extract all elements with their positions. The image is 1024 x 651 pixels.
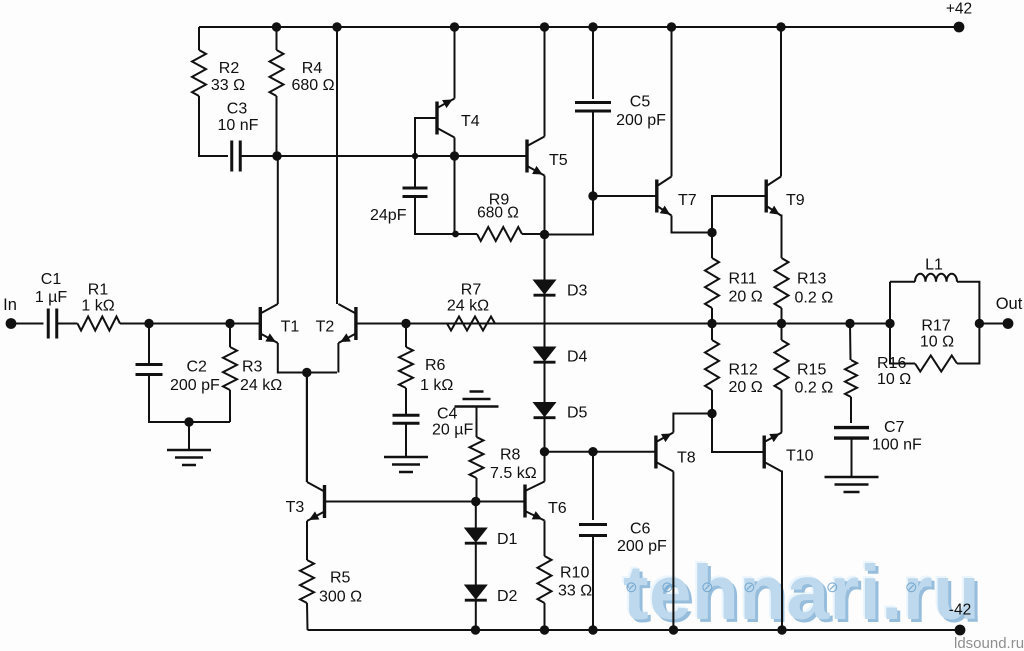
svg-text:200 pF: 200 pF [617,538,667,555]
svg-text:T3: T3 [286,499,305,516]
resistor R2 [192,50,206,96]
svg-text:0.2 Ω: 0.2 Ω [795,290,834,307]
svg-text:R10: R10 [560,565,589,582]
svg-text:Out: Out [996,295,1023,313]
wire T6 collector up to node [544,452,546,482]
svg-text:33 Ω: 33 Ω [558,583,592,600]
svg-text:D5: D5 [567,405,588,422]
transistor T10 [763,436,766,469]
wire R6 to C4 [405,388,407,415]
wire T3 emitter to R5 [306,521,308,560]
wire C6 down [592,452,594,520]
wire R4 bottom to node [276,96,278,156]
wire R2 to C3 [199,96,228,156]
svg-text:0.2 Ω: 0.2 Ω [795,380,834,397]
-42 terminal [955,625,966,636]
svg-text:T1: T1 [281,319,300,336]
node R11-R12 [707,319,716,328]
svg-text:R4: R4 [302,60,323,77]
svg-text:L1: L1 [925,257,943,274]
wire R13 to main line [781,308,783,324]
wire node to T5 base [415,155,527,157]
wire common emitter to T3 collector [306,373,308,483]
wire T8 collector to bottom rail [672,472,674,631]
transistor T5 [525,140,528,173]
resistor R4 [270,50,284,96]
diode D3 [534,280,556,294]
resistor R16 [845,360,857,397]
wire R12 to T8 emitter node [711,390,713,414]
resistor R7 [447,317,495,331]
diode D4 [534,347,556,361]
wire C7 to ground [851,438,853,477]
resistor R9 [477,227,522,241]
diode D1 [465,528,487,542]
wire T9 collector to rail [780,27,782,177]
ldsound.ru caption [954,635,1024,651]
ground under C4 [384,457,428,472]
node C2 branch [144,319,153,328]
wire R15 to T10 emitter [781,390,783,433]
In terminal [6,318,17,329]
capacitor 24pF [403,188,428,197]
wire R6 top [405,324,407,348]
capacitor C6 [579,525,607,536]
svg-text:D1: D1 [497,531,518,548]
transistor T8 [654,436,657,469]
node block right [975,319,984,328]
svg-text:R13: R13 [797,271,826,288]
wire R16 top [849,324,852,361]
transistor T9 [765,180,768,213]
L1 / R17 output block [890,281,915,283]
wire C1 to R1 [57,323,78,325]
svg-text:C4: C4 [437,406,458,423]
wire R8 to base node [476,478,478,502]
svg-text:R11: R11 [729,271,757,288]
svg-text:T2: T2 [316,319,335,336]
transistor T4 [435,102,438,135]
bottom -42 supply rail [308,629,961,631]
capacitor C4 [393,415,420,423]
svg-text:T5: T5 [549,152,568,169]
wire T9 base loop [712,196,766,233]
wire T3 collector up [306,373,308,483]
wire C4 to ground [405,424,407,458]
wire T7 emitter to R11 node [672,216,713,233]
wire to ground [188,422,190,450]
wire R10 to bottom rail [544,603,546,630]
node diode chain bottom [540,447,549,456]
top +42 supply rail [199,26,959,28]
wire base node down to 24pF cap [414,156,416,188]
wire T10 base loop [712,414,764,453]
wire to R9 [456,233,478,235]
svg-text:10 Ω: 10 Ω [877,371,911,388]
wire R9 to T5 emitter node [522,233,545,235]
svg-text:R7: R7 [461,282,482,299]
diode D2 [465,585,487,599]
svg-text:10 nF: 10 nF [218,117,259,134]
node common emitters [302,368,311,377]
svg-text:10 Ω: 10 Ω [920,334,954,351]
resistor R1 [78,317,121,331]
capacitor C5 [575,103,611,112]
wire T2 emitter down [337,343,339,373]
inductor L1 [915,274,957,282]
svg-text:+42: +42 [946,1,972,18]
wire block to Out terminal [979,323,1008,325]
node ground branch [184,417,193,426]
+42 terminal [954,22,965,33]
svg-text:C7: C7 [884,419,905,436]
resistor R15 [775,340,789,390]
capacitor C1 [48,309,57,339]
wire D2 to bottom rail [475,601,477,631]
wire diode chain [544,235,546,452]
svg-text:680 Ω: 680 Ω [477,205,519,222]
svg-text:R2: R2 [219,60,240,77]
wire down to R9 line corner [545,196,594,235]
svg-text:33 Ω: 33 Ω [211,77,245,94]
capacitor C2 [136,365,163,375]
svg-text:T8: T8 [677,450,696,467]
svg-text:300 Ω: 300 Ω [319,589,362,606]
node T4 base branch [412,153,418,159]
svg-text:R15: R15 [797,362,826,379]
svg-text:T7: T7 [678,192,697,209]
node L1 block left [885,319,894,328]
wire T7 base [593,195,657,197]
svg-text:200 pF: 200 pF [616,112,666,129]
capacitor C5 wire from rail [592,27,594,99]
svg-text:T10: T10 [786,448,814,465]
wire node to C6 node [545,451,657,453]
svg-text:R17: R17 [921,318,950,335]
wire C5 to T7 base node [592,111,594,197]
wire C6 to bottom rail [592,536,594,631]
node T7 base [588,191,597,200]
wire T10 emitter up [781,432,783,434]
svg-text:24 kΩ: 24 kΩ [240,377,282,394]
node R16 branch [845,319,854,328]
svg-text:24pF: 24pF [370,207,407,224]
svg-text:C3: C3 [227,101,248,118]
wire R16 to C7 [850,397,852,423]
wire T4 collector to rail [454,27,456,99]
svg-text:100 nF: 100 nF [872,437,922,454]
wire T4 emitter to node [454,138,456,157]
wire T8 emitter up to node [673,414,712,433]
wire T10 collector to bottom rail [781,472,783,631]
transistor T1 [259,307,262,340]
ground [167,450,211,465]
svg-text:D4: D4 [567,349,588,366]
svg-text:R8: R8 [500,447,521,464]
wire T1 collector up to node [277,156,279,304]
svg-text:24 kΩ: 24 kΩ [447,298,489,315]
wire T2 collector to top rail [336,27,338,304]
ground under C7 [825,477,879,492]
transistor T7 [655,180,658,213]
svg-text:T6: T6 [548,500,567,517]
wire base node to D1 [475,502,477,529]
node R3 branch [225,319,234,328]
wire main line to R15 [781,324,783,341]
node T8 emitter / T10 base [707,409,716,418]
inverted ground above R8 [455,392,499,407]
capacitor C3 [232,141,241,172]
node R4 bottom / T1 collector [272,151,281,160]
node R9 / diode chain [540,230,549,239]
transistor T6 [523,485,526,518]
wire R4 from rail [276,27,278,50]
resistor R8 [470,437,484,478]
wire T7 collector to rail [671,27,673,177]
wire R5 to bottom rail corner [306,603,309,630]
svg-text:R12: R12 [729,362,758,379]
node T3/T6 base - diode D1 [471,497,480,506]
svg-text:T4: T4 [461,113,480,130]
wire D1 to D2 [475,544,477,586]
svg-text:1 µF: 1 µF [35,289,68,306]
resistor R11 [705,258,719,308]
svg-text:C2: C2 [187,359,208,376]
watermark tehnari.ru [623,549,1023,638]
svg-text:D3: D3 [567,283,588,300]
svg-text:7.5 kΩ: 7.5 kΩ [490,465,537,482]
wire R11 to main line [711,233,713,259]
capacitor C7 [834,428,869,439]
svg-text:1 kΩ: 1 kΩ [420,377,453,394]
svg-text:20 Ω: 20 Ω [729,379,763,396]
svg-text:R3: R3 [242,359,263,376]
node T7 emitter / T9 base / R11 [707,228,716,237]
svg-text:200 pF: 200 pF [170,377,220,394]
wire T5 emitter down [544,176,546,235]
svg-text:680 Ω: 680 Ω [291,77,334,94]
svg-text:20 µF: 20 µF [432,422,473,439]
wire T1 emitter down [278,343,337,373]
resistor R13 [775,258,789,308]
wire R3 top [229,324,231,348]
wire T5 base node down to R9 line [454,156,456,234]
wire main line to R12 [711,324,713,341]
node R13-R15 [777,319,786,328]
svg-text:R1: R1 [88,282,109,299]
diode D5 [534,403,556,417]
resistor R5 [300,560,314,603]
wire R1 to T1 base [120,323,259,325]
resistor R10 [538,556,552,603]
svg-text:20 Ω: 20 Ω [729,289,763,306]
svg-text:C6: C6 [630,521,651,538]
wire T9 emitter down to R13 [780,216,783,259]
wire T6 emitter to R10 [544,521,546,557]
node T5-base-to-R9 junction [452,231,459,238]
wire T2 base to main line [356,323,890,325]
svg-text:R5: R5 [330,570,351,587]
svg-text:R6: R6 [425,357,446,374]
wire ground to R8 [476,407,478,438]
wire to capacitor C2 [148,324,150,365]
svg-text:1 kΩ: 1 kΩ [81,298,114,315]
svg-text:In: In [3,296,17,314]
wire input to C1 [11,323,44,325]
wire C2 to ground node [149,375,230,423]
resistor R17 [915,356,957,372]
wire 24pF to R9 line [415,197,456,235]
resistor R12 [705,340,719,390]
wire T4 base loop [415,118,437,156]
wire T5 collector to rail [544,27,546,137]
T3 base line to node [325,501,526,503]
Out terminal [1003,318,1014,329]
svg-text:-42: -42 [949,602,971,619]
transistor T3 [323,485,326,518]
wire top rail corner to R2 [198,27,200,50]
svg-text:C5: C5 [630,94,651,111]
svg-text:T9: T9 [786,192,805,209]
resistor R6 [399,347,413,388]
svg-text:D2: D2 [497,588,518,605]
svg-text:C1: C1 [41,271,62,288]
node T4 emitter [450,151,459,160]
wire R3 bottom [229,390,231,422]
node R6 branch [401,319,410,328]
transistor T2 [354,307,357,340]
node C6 top [588,447,597,456]
wire C3 to node [241,155,416,157]
resistor R3 [223,347,237,390]
